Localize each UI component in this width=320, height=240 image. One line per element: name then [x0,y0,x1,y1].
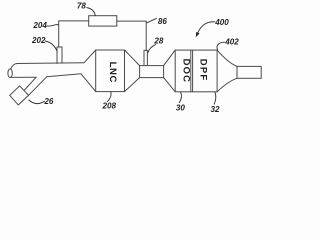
svg-text:LNC: LNC [107,62,118,83]
svg-text:208: 208 [102,101,117,110]
svg-text:30: 30 [176,104,186,113]
svg-text:28: 28 [153,37,164,46]
svg-text:DPF: DPF [198,59,209,82]
svg-text:32: 32 [210,105,220,114]
svg-text:400: 400 [214,18,229,27]
svg-text:202: 202 [31,36,46,45]
svg-text:86: 86 [158,17,168,26]
svg-text:26: 26 [43,97,54,106]
svg-text:204: 204 [32,21,47,30]
svg-text:402: 402 [224,37,239,46]
svg-text:78: 78 [77,2,87,11]
svg-text:DOC: DOC [181,59,192,83]
